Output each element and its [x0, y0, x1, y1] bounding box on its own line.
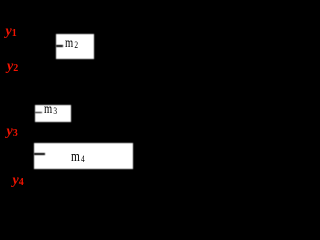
label y1 [6, 25, 17, 39]
text m3 [44, 102, 57, 117]
box m3 [35, 105, 71, 122]
box m4 [34, 143, 133, 169]
box m2 [56, 34, 94, 58]
tick on box m4 [34, 153, 45, 155]
tick on box m3 [35, 112, 42, 114]
label y4 [13, 174, 24, 188]
label y2 [7, 60, 18, 74]
label y3 [7, 125, 18, 139]
text m4 [71, 150, 85, 165]
tick on box m2 [56, 45, 63, 47]
text m2 [65, 36, 78, 51]
